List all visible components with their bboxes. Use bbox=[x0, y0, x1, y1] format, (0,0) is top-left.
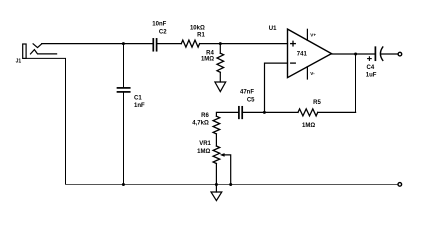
wire bottom rail bbox=[66, 184, 398, 186]
node VR1 bottom junction bbox=[215, 183, 218, 186]
label R4 value bbox=[201, 50, 215, 62]
svg-text:R6: R6 bbox=[201, 113, 209, 119]
svg-text:741: 741 bbox=[297, 51, 308, 57]
wiper arrow VR1 bbox=[220, 153, 231, 184]
label C1 value bbox=[134, 96, 145, 110]
node C1 top junction bbox=[122, 42, 125, 45]
wire R5 to C5 bbox=[243, 111, 299, 113]
node R4 junction bbox=[219, 42, 222, 45]
svg-text:R5: R5 bbox=[313, 100, 321, 106]
wire op-amp inverting input to feedback node bbox=[265, 63, 288, 112]
label C2 value bbox=[152, 22, 167, 36]
svg-text:C5: C5 bbox=[247, 98, 255, 104]
svg-text:V-: V- bbox=[310, 71, 315, 76]
node C1 bottom junction bbox=[122, 183, 125, 186]
wire R1 to op-amp bbox=[200, 43, 288, 45]
wire op-amp output bbox=[332, 53, 376, 55]
capacitor C5 bbox=[239, 107, 242, 119]
output terminal bottom bbox=[398, 183, 402, 187]
label R1 value bbox=[190, 25, 205, 38]
op-amp U1 bbox=[288, 29, 332, 79]
svg-text:U1: U1 bbox=[269, 26, 277, 32]
label C4 value bbox=[366, 65, 377, 78]
capacitor C1 bbox=[118, 44, 130, 185]
resistor R6 bbox=[213, 116, 220, 134]
svg-text:1MΩ: 1MΩ bbox=[201, 56, 214, 62]
svg-text:C4: C4 bbox=[367, 65, 375, 71]
node output junction bbox=[354, 53, 357, 56]
capacitor C4 bbox=[368, 47, 383, 60]
capacitor C2 bbox=[153, 39, 156, 51]
svg-text:47nF: 47nF bbox=[240, 90, 254, 96]
svg-text:1uF: 1uF bbox=[366, 73, 377, 79]
svg-text:C1: C1 bbox=[134, 96, 142, 102]
label VR1 value bbox=[197, 141, 211, 155]
ground below R4 bbox=[215, 82, 226, 92]
jack J1 bbox=[23, 44, 66, 185]
svg-text:10kΩ: 10kΩ bbox=[190, 25, 205, 31]
label R6 value bbox=[192, 113, 209, 126]
svg-text:1nF: 1nF bbox=[134, 103, 145, 109]
node feedback junction bbox=[263, 111, 266, 114]
svg-text:C2: C2 bbox=[159, 29, 167, 35]
svg-text:1MΩ: 1MΩ bbox=[197, 149, 210, 155]
label U1 bbox=[269, 26, 317, 76]
label C5 value bbox=[240, 90, 255, 104]
wire top rail jack to C2 bbox=[42, 43, 153, 45]
svg-text:4,7kΩ: 4,7kΩ bbox=[192, 121, 209, 127]
resistor R4 bbox=[217, 44, 224, 82]
output terminal top bbox=[398, 52, 402, 56]
wire C5 to R6 top bbox=[216, 112, 239, 116]
wire C2 to R1 bbox=[157, 43, 182, 45]
svg-text:J1: J1 bbox=[16, 59, 22, 65]
wire R6 to VR1 bbox=[215, 134, 217, 146]
resistor R1 bbox=[181, 40, 199, 47]
svg-text:R1: R1 bbox=[197, 32, 205, 38]
node wiper bottom junction bbox=[229, 183, 232, 186]
svg-text:VR1: VR1 bbox=[199, 141, 211, 147]
wire output junction down to R5 bbox=[355, 54, 357, 112]
svg-text:10nF: 10nF bbox=[152, 22, 166, 28]
svg-text:1MΩ: 1MΩ bbox=[302, 123, 315, 129]
label R5 value bbox=[302, 100, 321, 129]
svg-text:V+: V+ bbox=[310, 33, 316, 38]
wire C4 to output terminal bbox=[381, 53, 397, 55]
potentiometer VR1 bbox=[213, 146, 220, 185]
ground below VR1 bbox=[211, 185, 222, 201]
wire R5 right lead bbox=[318, 111, 356, 113]
resistor R5 bbox=[298, 109, 318, 116]
